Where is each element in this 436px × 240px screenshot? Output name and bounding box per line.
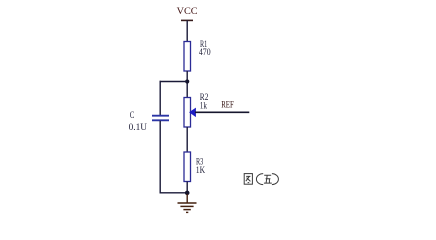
svg-text:1K: 1K [196,165,206,175]
node ground junction [185,191,190,196]
resistor R1 [184,42,191,72]
wire left branch lower [159,121,161,194]
ground bar 1 [178,202,197,204]
wire wiper REF line [195,111,249,113]
svg-text:0.1U: 0.1U [129,122,148,132]
capacitor C top plate [152,115,169,117]
wire R3 to ground [186,182,188,195]
figure caption char tu outer box [244,174,278,185]
potentiometer R2 body [184,98,191,128]
node junction below R1 [185,79,189,83]
potentiometer R2 wiper arrow [190,108,196,116]
ground bar 3 [183,209,190,211]
svg-text:VCC: VCC [177,7,198,17]
ground stub [186,194,188,203]
ground bar 4 [186,211,188,213]
figure caption left paren [256,174,263,185]
figure caption right paren [272,174,278,185]
wire bottom rail [160,192,188,194]
figure caption char tu inner strokes [246,176,251,182]
wire junction to left branch [160,81,188,83]
resistor R3 [184,152,191,182]
figure caption char wu [264,175,272,183]
svg-text:C: C [130,110,135,120]
svg-text:470: 470 [199,47,211,57]
svg-text:1k: 1k [200,101,208,111]
wire R2 to R3 [186,127,188,153]
wire VCC to R1 [186,20,188,42]
ground bar 2 [180,205,193,207]
wire left branch upper [159,81,161,116]
wire R1 to R2 [186,71,188,98]
power symbol VCC bar [181,19,193,21]
svg-text:REF: REF [221,100,234,110]
capacitor C bottom plate [152,119,169,121]
